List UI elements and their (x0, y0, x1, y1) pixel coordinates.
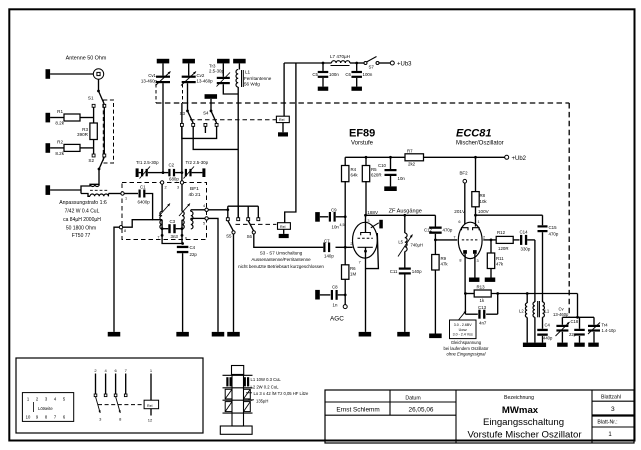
anode supply rail (345, 156, 405, 158)
tube ECC81 (458, 222, 482, 258)
svg-text:Lötseite: Lötseite (38, 406, 53, 411)
svg-text:100n: 100n (329, 72, 339, 77)
main gang dashed line (156, 102, 569, 104)
svg-text:12: 12 (148, 418, 153, 423)
terminal antenna input (46, 69, 51, 79)
bus S5 S6 (228, 205, 258, 207)
svg-text:3: 3 (477, 259, 479, 263)
ground EF89 cathode (359, 332, 372, 337)
wire grid2 to R12 (483, 239, 496, 241)
ground Tr4 (588, 343, 599, 347)
svg-text:C18: C18 (571, 319, 579, 324)
anode wire to mixer (366, 214, 436, 216)
ground Cv2 (182, 59, 195, 64)
svg-text:140p: 140p (412, 269, 422, 274)
svg-text:S1: S1 (88, 96, 94, 101)
svg-text:Rel: Rel (147, 404, 153, 408)
winding L1 bars (226, 377, 228, 386)
svg-text:R13: R13 (477, 284, 486, 289)
capacitor C1 (124, 193, 138, 195)
EF89 screen loop (366, 233, 379, 269)
coil L secondary a BF1 (181, 184, 183, 211)
svg-text:1M: 1M (350, 271, 356, 276)
capacitor C15 (542, 215, 544, 225)
relay Rel1 (283, 63, 285, 116)
svg-text:R9: R9 (441, 256, 447, 261)
pin 7 (161, 234, 164, 237)
svg-text:C13: C13 (478, 305, 487, 310)
variable capacitor Cv2 (182, 76, 196, 78)
wire R13 node (434, 287, 436, 289)
svg-text:R4: R4 (351, 167, 357, 172)
svg-text:4n7: 4n7 (479, 321, 487, 326)
wire contact 1 up (181, 103, 183, 123)
node 4 (191, 209, 206, 211)
wire (93, 107, 95, 123)
tube EF89 (353, 222, 378, 258)
svg-text:140p: 140p (324, 254, 334, 259)
wire (50, 73, 93, 75)
svg-text:8: 8 (124, 229, 126, 233)
node 2 (160, 181, 163, 184)
svg-text:C4: C4 (190, 245, 196, 250)
svg-text:5: 5 (203, 222, 205, 226)
resistor R4 (344, 157, 346, 166)
wire Cv2 down (187, 83, 189, 110)
svg-text:L2 2W 0.2 CuL: L2 2W 0.2 CuL (251, 384, 280, 389)
inductor L5 (404, 215, 406, 233)
svg-text:Ernst Schlemm: Ernst Schlemm (336, 406, 379, 413)
svg-text:64k: 64k (351, 173, 359, 178)
svg-text:R5: R5 (371, 167, 377, 172)
svg-text:188V: 188V (367, 210, 379, 215)
node 8 (119, 226, 122, 229)
svg-text:MWmax: MWmax (502, 405, 539, 416)
svg-text:Vorstufe: Vorstufe (351, 141, 374, 147)
svg-text:C9: C9 (331, 207, 337, 212)
svg-text:Tr2 2.5-30p: Tr2 2.5-30p (186, 160, 209, 165)
wire to relay Rel2 (285, 63, 296, 223)
dashed mech Cv2 (182, 84, 184, 103)
svg-text:1: 1 (478, 220, 480, 224)
svg-text:10n: 10n (398, 176, 406, 181)
resistor R1 (50, 117, 64, 119)
svg-text:Rel: Rel (279, 118, 285, 122)
wire anode to C15 (474, 214, 477, 217)
svg-text:ZF Ausgänge: ZF Ausgänge (389, 208, 422, 214)
svg-text:330p: 330p (521, 247, 531, 252)
svg-text:13-460p: 13-460p (553, 312, 569, 317)
resistor R2 (50, 147, 64, 149)
wafer switch arms (96, 397, 101, 413)
voltage box (450, 320, 477, 339)
svg-text:7: 7 (157, 236, 159, 240)
switch S6 (248, 221, 254, 232)
EF89 anode (365, 215, 367, 232)
svg-text:8.2k: 8.2k (55, 121, 64, 126)
resistor R12 (496, 236, 513, 243)
svg-text:C8: C8 (332, 285, 338, 290)
dashed mech box S1-S2 (103, 100, 113, 163)
capacitor C9 with terminal (315, 212, 320, 222)
svg-text:2: 2 (350, 242, 352, 246)
wire (103, 107, 105, 154)
EF89 grid dashes (358, 237, 373, 239)
svg-text:ca 84µH 2000µH: ca 84µH 2000µH (63, 217, 101, 223)
svg-text:Anpassungstrafo 1:6: Anpassungstrafo 1:6 (59, 200, 107, 206)
capacitor C5 (322, 63, 324, 71)
capacitor C8 with terminal (315, 290, 320, 300)
svg-text:2: 2 (483, 235, 485, 239)
svg-text:620R: 620R (371, 173, 382, 178)
ground C4 (176, 332, 189, 337)
svg-text:680p: 680p (169, 177, 179, 182)
svg-text:R1: R1 (57, 109, 63, 114)
svg-text:Gleichspannung: Gleichspannung (451, 340, 482, 345)
ground left (108, 332, 121, 337)
svg-text:R3: R3 (82, 127, 88, 132)
svg-text:Mischer/Oszillator: Mischer/Oszillator (456, 141, 504, 147)
wire Cv1 down (162, 83, 164, 172)
wire to ECC81 grid (435, 239, 457, 241)
svg-text:Ferritantenne: Ferritantenne (244, 76, 272, 81)
svg-text:R6: R6 (350, 266, 356, 271)
ground R11 (485, 278, 496, 282)
svg-text:BF2: BF2 (460, 171, 469, 176)
ground Rel1 (278, 132, 288, 136)
svg-text:Rel: Rel (280, 225, 286, 229)
dashed wafer link (98, 404, 144, 406)
svg-text:C5: C5 (312, 72, 318, 77)
svg-text:100V: 100V (478, 209, 490, 214)
resistor R8 (472, 192, 479, 207)
svg-text:R7: R7 (407, 148, 413, 153)
svg-text:C2: C2 (169, 163, 175, 168)
contact squares S5 S6 (226, 218, 229, 221)
svg-text:S5: S5 (226, 233, 232, 238)
svg-text:50 1800 Ohm: 50 1800 Ohm (66, 225, 96, 231)
variable capacitor Cv1 (156, 76, 170, 78)
coil former base (220, 426, 252, 434)
svg-text:201V: 201V (454, 209, 466, 214)
svg-text:AGC: AGC (330, 316, 344, 323)
svg-text:6: 6 (185, 237, 187, 241)
big ground bar (523, 343, 546, 347)
coil L secondary b BF1 (190, 210, 192, 212)
svg-text:1: 1 (125, 197, 127, 201)
wire (98, 169, 100, 184)
svg-text:Antenne 50 Ohm: Antenne 50 Ohm (66, 56, 107, 62)
connector info box (16, 358, 203, 433)
switch S7 (364, 62, 367, 65)
terminal R2 input (46, 143, 51, 153)
wire pin7 to C4 (162, 235, 183, 243)
wire contact 3 stub (204, 126, 206, 133)
svg-text:Tr4: Tr4 (602, 322, 609, 327)
svg-text:Bezeichnung: Bezeichnung (504, 395, 534, 401)
wire node4 right (208, 209, 228, 211)
wire grid g1 (336, 246, 353, 248)
wire top rail Ub3 (284, 62, 330, 64)
svg-text:S3: S3 (180, 111, 186, 116)
capacitor C6 (356, 63, 358, 71)
trimmer Tr3 (217, 59, 230, 64)
ground C11 (397, 332, 410, 337)
trimmer Tr4 (593, 317, 595, 325)
svg-text:7/42 W 0.4 CuL: 7/42 W 0.4 CuL (65, 209, 100, 215)
svg-text:7: 7 (359, 261, 361, 265)
svg-text:56 Wdg: 56 Wdg (244, 82, 260, 87)
capacitor C10 (389, 156, 392, 159)
title block frame (325, 390, 634, 443)
winding hatched sections (225, 389, 232, 399)
svg-text:470p: 470p (443, 228, 453, 233)
svg-text:Aussenantenne/Ferritantenne: Aussenantenne/Ferritantenne (251, 257, 311, 262)
svg-text:Blatt-Nr.:: Blatt-Nr.: (597, 420, 617, 426)
svg-text:C3: C3 (170, 219, 176, 224)
svg-text:1.3: 1.3 (364, 219, 369, 223)
node 5 (191, 217, 206, 219)
wire S6 to C7 (254, 234, 323, 247)
svg-text:1n: 1n (333, 303, 338, 308)
svg-text:3: 3 (611, 406, 615, 413)
ECC81 anodes (462, 228, 469, 231)
svg-text:22p: 22p (569, 332, 577, 337)
pin 6 (181, 234, 184, 237)
solder side box (22, 393, 73, 422)
oscillator transformer windings (526, 292, 529, 295)
svg-text:Blattzahl: Blattzahl (601, 395, 621, 401)
svg-text:+Ub3: +Ub3 (397, 61, 412, 67)
svg-text:FT50 77: FT50 77 (72, 233, 91, 239)
resistor R7 (405, 154, 424, 161)
svg-text:Eingangsschaltung: Eingangsschaltung (483, 417, 564, 428)
wire contact 2 down bus (193, 126, 238, 149)
ground Cv3 (557, 343, 568, 347)
terminal +Ub2 (505, 155, 509, 159)
svg-text:120R: 120R (498, 246, 509, 251)
svg-text:1.4-10p: 1.4-10p (602, 328, 617, 333)
wire (93, 140, 95, 148)
svg-text:Lo 3 x 42 /M Tz 0,05 HF Litze: Lo 3 x 42 /M Tz 0,05 HF Litze (254, 391, 310, 396)
svg-text:6400p: 6400p (138, 199, 151, 204)
svg-text:C15: C15 (549, 225, 558, 230)
svg-text:3: 3 (177, 186, 179, 190)
svg-text:2.5-30p: 2.5-30p (209, 68, 224, 73)
resistor R6 (344, 247, 346, 264)
svg-text:3.0 - 2.6BV: 3.0 - 2.6BV (454, 323, 473, 327)
svg-text:135µH: 135µH (256, 399, 268, 404)
ECC81 grid dashes (462, 239, 480, 241)
svg-text:+Ub2: +Ub2 (512, 156, 527, 162)
svg-text:L5: L5 (398, 240, 403, 245)
osc bus (562, 316, 594, 318)
svg-text:7: 7 (453, 235, 455, 239)
ground Cv1 (157, 59, 170, 64)
inductor L1 Ferritantenne (233, 59, 246, 64)
svg-text:390R: 390R (77, 132, 89, 137)
svg-text:C14: C14 (520, 230, 529, 235)
svg-text:ECC81: ECC81 (456, 128, 491, 140)
svg-text:Tr1 2.5-30p: Tr1 2.5-30p (136, 160, 159, 165)
svg-text:L1: L1 (545, 309, 550, 314)
ground S5 (227, 332, 240, 337)
wire osc down (577, 294, 579, 318)
wire Ub2 down to R8 (474, 156, 477, 159)
switch S1 (98, 79, 100, 91)
dashed S5 S6 to relay 2 (236, 223, 277, 225)
wire contacts U link (182, 126, 217, 138)
svg-text:L2: L2 (519, 309, 524, 314)
ground R9 (429, 334, 442, 339)
winding right (542, 301, 544, 304)
ground Rel2 (279, 234, 289, 238)
EF89 grid cap pin 1.3 (371, 223, 379, 228)
svg-text:C10: C10 (378, 163, 387, 168)
svg-text:S3 - S7 Umschaltung: S3 - S7 Umschaltung (260, 251, 303, 256)
ground C6 (351, 87, 362, 91)
wire node8 to ground (114, 227, 119, 332)
svg-text:13-460p: 13-460p (197, 79, 214, 84)
svg-text:EF89: EF89 (349, 128, 375, 140)
ECC81 cathodes (463, 250, 467, 254)
svg-text:R2: R2 (57, 140, 63, 145)
capacitor C13 loop (464, 294, 466, 315)
svg-text:R12: R12 (497, 230, 506, 235)
svg-text:100n: 100n (363, 72, 373, 77)
wire C1 to coil (145, 194, 162, 220)
svg-text:S2: S2 (88, 158, 94, 163)
svg-text:26,05,06: 26,05,06 (409, 406, 434, 413)
svg-text:Cv2: Cv2 (197, 73, 205, 78)
antenna connector (93, 69, 103, 79)
coil L primary BF1 (161, 184, 163, 211)
svg-text:22p: 22p (190, 252, 198, 257)
svg-text:10: 10 (26, 415, 31, 420)
ground ECC81 cathode (469, 278, 480, 282)
svg-text:bei laufendem Oszillator: bei laufendem Oszillator (444, 346, 490, 351)
svg-text:440p: 440p (543, 336, 553, 341)
contact squares S3 S4 (180, 123, 183, 126)
svg-text:47k: 47k (496, 261, 504, 266)
svg-text:47k: 47k (441, 261, 449, 266)
wire L1 down (237, 87, 239, 94)
node 1 (121, 192, 124, 195)
dashed box BF1 (122, 183, 207, 240)
svg-text:C4: C4 (545, 322, 551, 327)
svg-text:4b 21: 4b 21 (189, 192, 201, 198)
svg-text:740µH: 740µH (411, 243, 423, 248)
capacitor C12 (434, 215, 436, 226)
ground C18 (574, 343, 585, 347)
transformer Anpassungstrafo 1:6 (46, 185, 51, 195)
wire pin6 down (181, 235, 183, 243)
switch S5 (228, 221, 234, 232)
svg-text:2k2: 2k2 (408, 162, 416, 167)
dashed gang to Cv3 (568, 103, 570, 317)
terminal R1 input (46, 113, 51, 123)
svg-text:1k: 1k (480, 298, 485, 303)
svg-text:C1: C1 (140, 184, 146, 189)
ground node5 (212, 332, 225, 337)
wire Tr3 down (223, 84, 238, 94)
svg-text:4: 4 (203, 204, 205, 208)
svg-text:L1: L1 (245, 70, 251, 75)
svg-text:ohne Eingangssignal: ohne Eingangssignal (447, 351, 487, 356)
wire node5 to ground (208, 218, 218, 332)
switch S4 (210, 110, 213, 113)
wire node8 step (123, 220, 153, 228)
wire S5 to ground (233, 234, 235, 332)
svg-text:S7: S7 (369, 65, 375, 70)
svg-text:BF1: BF1 (190, 186, 199, 192)
svg-text:Datum: Datum (405, 396, 420, 402)
svg-text:R11: R11 (496, 256, 504, 261)
relay Rel2 (278, 223, 291, 230)
svg-text:4,5: 4,5 (340, 223, 345, 227)
svg-text:10k: 10k (480, 199, 488, 204)
switch S2 (92, 154, 95, 157)
dashed S3 S4 to relay (190, 119, 276, 121)
svg-text:L7 470µH: L7 470µH (330, 54, 350, 59)
resistor R11 (490, 240, 492, 253)
svg-text:2: 2 (165, 186, 167, 190)
svg-text:8.2k: 8.2k (55, 151, 64, 156)
svg-text:S6: S6 (247, 234, 253, 239)
svg-text:R8: R8 (480, 193, 486, 198)
resistor R5 (365, 156, 368, 159)
svg-text:nicht benutzte Betriebsart kur: nicht benutzte Betriebsart kurzgeschloss… (238, 264, 324, 269)
title block lines (389, 390, 391, 415)
resistor R9 (432, 255, 439, 271)
wire Tr2 column down (181, 126, 183, 182)
variable capacitor Cv3 (561, 317, 563, 325)
capacitor C4 (177, 246, 189, 248)
svg-text:10n: 10n (332, 225, 340, 230)
terminal AGC (343, 305, 347, 309)
EF89 cathode (358, 246, 373, 248)
svg-text:3.0 - 2.4 Vss: 3.0 - 2.4 Vss (453, 333, 473, 337)
svg-text:3n3: 3n3 (171, 234, 179, 239)
svg-text:6: 6 (458, 220, 460, 224)
svg-text:470p: 470p (549, 231, 559, 236)
coil former body (232, 366, 244, 375)
svg-text:S4: S4 (203, 110, 209, 115)
resistor R13 (465, 293, 474, 295)
svg-text:13-460p: 13-460p (141, 79, 158, 84)
switch S3 (186, 110, 189, 113)
wire C4 to ground (182, 253, 184, 332)
svg-text:C11: C11 (390, 269, 398, 274)
ground C10 (384, 186, 397, 191)
ground over S4 (205, 94, 218, 99)
node 3 (180, 181, 183, 184)
ground C5 (318, 87, 329, 91)
resistor R3 (90, 123, 97, 140)
svg-text:8: 8 (459, 259, 461, 263)
core lines (537, 301, 539, 317)
dashed mech Cv1 (155, 84, 157, 103)
svg-text:C6: C6 (345, 72, 351, 77)
terminal +Ub3 (379, 62, 391, 64)
svg-text:Uosz: Uosz (459, 328, 467, 332)
svg-text:Cv1: Cv1 (148, 73, 156, 78)
svg-text:Vorstufe Mischer Oszillator: Vorstufe Mischer Oszillator (467, 429, 582, 440)
svg-text:L1 10W 0.3 CuL: L1 10W 0.3 CuL (251, 377, 282, 382)
